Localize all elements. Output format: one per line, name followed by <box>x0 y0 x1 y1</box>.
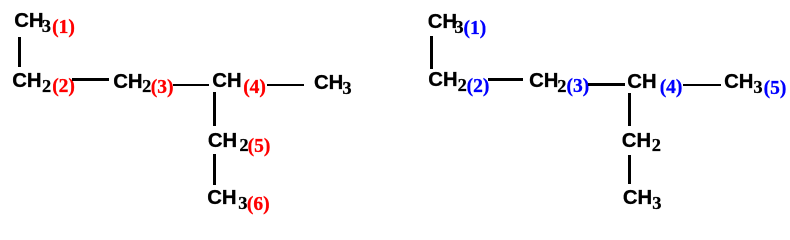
carbon group: branch CH2 <box>622 131 661 152</box>
carbon group C4: CH(4) <box>627 72 682 94</box>
carbon group C3: CH2(3) <box>113 72 173 94</box>
wire bond C4-CH3 horizontal <box>267 84 304 87</box>
wire bond C4-CH2 vertical <box>628 93 631 126</box>
wire bond C2-C3 horizontal <box>72 78 109 81</box>
wire bond C2-C3 horizontal <box>488 78 523 81</box>
wire bond C5-C6 vertical <box>213 154 216 185</box>
carbon group C2: CH2(2) <box>428 70 489 92</box>
carbon group: terminal CH3 <box>314 73 352 94</box>
carbon group C6: CH3(6) <box>207 188 269 210</box>
carbon group C2: CH2(2) <box>12 71 75 93</box>
carbon group C5: CH2(5) <box>208 131 270 153</box>
wire bond C1-C2 vertical <box>18 37 21 68</box>
carbon group C1: CH3(1) <box>14 11 75 33</box>
wire bond C4-C5 vertical <box>213 92 216 126</box>
carbon group C3: CH2(3) <box>529 71 589 93</box>
carbon group C1: CH3(1) <box>428 12 487 34</box>
wire bond C1-C2 vertical <box>430 36 433 69</box>
wire bond C4-C5 horizontal <box>683 84 721 87</box>
wire bond CH2-CH3 vertical <box>628 155 631 184</box>
carbon group: branch CH3 <box>623 188 662 209</box>
wire bond C3-C4 horizontal <box>173 84 209 87</box>
carbon group C4: CH(4) <box>212 71 266 93</box>
carbon group C5: CH3(5) <box>724 72 786 94</box>
wire bond C3-C4 horizontal <box>588 83 625 86</box>
